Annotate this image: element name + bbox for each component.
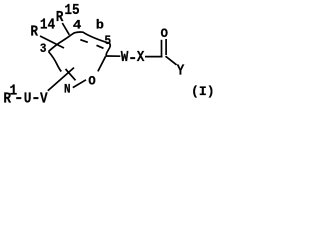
- svg-text:R: R: [30, 24, 38, 41]
- svg-text:X: X: [137, 49, 145, 66]
- svg-text:N: N: [64, 82, 71, 97]
- svg-text:Y: Y: [177, 62, 185, 79]
- svg-text:(I): (I): [191, 84, 215, 99]
- svg-text:b: b: [96, 18, 104, 32]
- svg-text:O: O: [161, 27, 169, 41]
- svg-text:3: 3: [40, 41, 47, 56]
- svg-text:V: V: [40, 90, 48, 107]
- svg-text:O: O: [88, 75, 96, 89]
- svg-text:5: 5: [104, 33, 111, 48]
- svg-text:14: 14: [40, 17, 55, 34]
- svg-text:4: 4: [73, 19, 82, 33]
- svg-text:15: 15: [64, 2, 79, 19]
- svg-text:R: R: [56, 9, 64, 26]
- svg-text:-: -: [14, 90, 24, 107]
